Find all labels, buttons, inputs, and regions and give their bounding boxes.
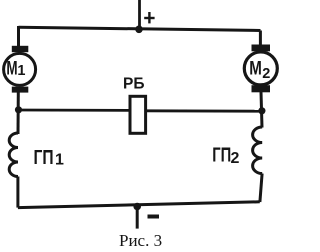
label + (plus terminal) [144,12,154,23]
inductor ГП1 [9,133,18,177]
svg-text:М: М [249,59,262,80]
inductor ГП2 [253,127,263,174]
svg-text:РБ: РБ [123,76,145,93]
wire: middle bus left segment [19,109,132,112]
resistor РБ [130,96,146,133]
node: right middle junction dot [258,107,265,114]
wire: left vertical bottom segment [16,177,19,208]
wire: right vertical, M2 to coil [261,92,262,128]
wire: positive supply stub [138,0,141,30]
svg-text:1: 1 [55,152,64,169]
motor M2 [244,45,277,93]
svg-text:Рис. 3: Рис. 3 [119,231,162,250]
svg-text:2: 2 [262,66,270,82]
motor M1 [4,46,36,93]
node: left middle junction dot [15,106,22,113]
svg-text:ГП: ГП [212,145,231,167]
wire: bottom bus [18,202,260,208]
label ГП1 [34,147,65,169]
svg-text:2: 2 [231,150,240,167]
wire: right vertical bottom segment [260,174,262,203]
svg-text:1: 1 [17,63,25,79]
wire: top bus [19,27,261,30]
label ГП2 [212,145,239,168]
wire: middle bus right segment [146,109,262,112]
wire: right vertical top segment [259,31,262,47]
svg-text:М: М [6,59,17,80]
wire: negative supply stub [136,207,139,229]
svg-text:ГП: ГП [34,147,54,169]
node: top junction dot [135,26,143,34]
label − (minus terminal) [148,215,160,219]
node: bottom junction dot [133,203,141,211]
wire: left vertical, M1 to coil [17,93,20,135]
wire: left vertical top segment [17,26,20,47]
